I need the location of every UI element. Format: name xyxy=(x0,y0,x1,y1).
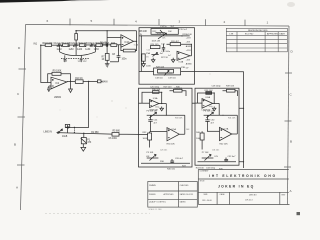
svg-text:1u63: 1u63 xyxy=(94,49,100,51)
inline resistor R4A xyxy=(111,44,117,47)
capacitor stubs below wire xyxy=(57,45,94,47)
svg-text:100K: 100K xyxy=(143,138,148,140)
dashed bus xyxy=(61,58,90,60)
inline cap C2A xyxy=(75,43,76,46)
box1 bottom inner frame xyxy=(154,68,181,75)
wire IC1a out xyxy=(134,31,137,42)
svg-text:R2A 10K: R2A 10K xyxy=(79,42,88,45)
pot P3A lower xyxy=(151,53,158,57)
wire IC2 out xyxy=(67,80,75,82)
svg-text:R9 100K: R9 100K xyxy=(53,71,62,73)
svg-text:P5 10K: P5 10K xyxy=(147,152,154,154)
wire line-in entry xyxy=(139,133,148,135)
pot P6 xyxy=(204,112,223,118)
svg-text:2: 2 xyxy=(224,20,226,24)
svg-text:C2A 1u: C2A 1u xyxy=(71,42,79,45)
svg-text:100K: 100K xyxy=(146,66,151,68)
svg-text:4n7: 4n7 xyxy=(168,55,171,57)
svg-text:IHT ELEKTRONIK OHG: IHT ELEKTRONIK OHG xyxy=(209,174,277,178)
shunt trimmer xyxy=(83,133,85,137)
input wire xyxy=(195,102,202,104)
labels below box2/box3 xyxy=(167,167,224,170)
extra faint component labels xyxy=(134,37,236,151)
border left xyxy=(21,25,26,211)
svg-text:IC1A: IC1A xyxy=(134,43,139,46)
resistor R24 xyxy=(150,46,160,49)
zone tick top 4/3 xyxy=(158,19,160,26)
op-amp IC4A xyxy=(150,100,160,108)
svg-text:R28 10K: R28 10K xyxy=(156,66,165,68)
svg-text:B: B xyxy=(14,143,16,147)
inline resistor R1A xyxy=(63,44,69,47)
inline resistor R3A xyxy=(96,44,102,47)
svg-text:B: B xyxy=(290,139,292,143)
inline cap C1A xyxy=(58,43,59,46)
svg-text:P3A: P3A xyxy=(146,52,151,55)
line-in wire xyxy=(57,133,140,135)
op-amp IC4B xyxy=(167,128,179,141)
svg-text:1u63: 1u63 xyxy=(69,49,75,51)
svg-text:JOKER IN EQ: JOKER IN EQ xyxy=(218,185,255,189)
resistor R10 xyxy=(75,80,83,84)
title block left box xyxy=(148,182,198,208)
ground under R7 xyxy=(105,60,110,67)
labels upper-left (tiny) xyxy=(34,31,148,144)
svg-text:LM33078: LM33078 xyxy=(149,110,159,112)
svg-text:C15 1n2: C15 1n2 xyxy=(179,29,188,31)
svg-text:47K: 47K xyxy=(87,142,92,144)
wire bottom frame to edge xyxy=(181,71,195,73)
svg-text:R1 680: R1 680 xyxy=(91,132,99,134)
zone tick top 5/4 xyxy=(113,19,115,26)
svg-text:100n: 100n xyxy=(122,59,128,61)
svg-text:R4A: R4A xyxy=(111,42,116,45)
svg-text:+15V: +15V xyxy=(186,38,192,40)
svg-text:C25 10n: C25 10n xyxy=(160,150,167,152)
op-amp IC7A xyxy=(220,127,232,140)
resistor R5 xyxy=(112,133,119,137)
svg-text:AGND: AGND xyxy=(186,45,193,48)
pot arrow inner frame xyxy=(156,30,166,34)
svg-text:P7 10K: P7 10K xyxy=(202,152,209,154)
svg-text:LIN: LIN xyxy=(146,156,150,158)
junctions box3 xyxy=(207,92,224,131)
wire ladder main xyxy=(40,45,41,46)
pot arrow bottom frame xyxy=(158,70,172,75)
svg-text:R30 10K: R30 10K xyxy=(152,89,161,91)
bottom wire box2 xyxy=(141,162,190,164)
svg-text:AGND: AGND xyxy=(186,63,193,66)
wire to IC4B xyxy=(151,131,168,133)
op-amp IC6A xyxy=(202,99,213,109)
op-amp IC1a xyxy=(121,35,134,48)
svg-text:R33 10K: R33 10K xyxy=(175,118,183,120)
svg-text:CB1 - 94.06: CB1 - 94.06 xyxy=(202,200,212,202)
resistor R40 vertical xyxy=(200,133,204,140)
bottom pot P5 xyxy=(147,154,159,160)
arrow mark xyxy=(66,127,68,129)
svg-text:SCALE 1:1 CAD: SCALE 1:1 CAD xyxy=(149,208,163,211)
svg-text:C32 4n7: C32 4n7 xyxy=(228,156,237,158)
svg-text:IC3A: IC3A xyxy=(179,61,184,64)
svg-text:LIN: LIN xyxy=(215,156,219,158)
output and fb vertical xyxy=(213,93,220,115)
pot P4 xyxy=(147,112,167,118)
svg-text:C19 10n: C19 10n xyxy=(168,78,177,80)
svg-text:DWG NO: DWG NO xyxy=(249,194,257,196)
svg-text:DATE: DATE xyxy=(280,33,286,36)
svg-text:C6 100n: C6 100n xyxy=(109,138,118,140)
svg-text:ISSUED: ISSUED xyxy=(149,194,156,196)
svg-text:APPROVED: APPROVED xyxy=(164,193,175,196)
pot P2A on wire xyxy=(158,33,167,39)
svg-text:4: 4 xyxy=(135,19,137,23)
svg-text:APPROVED: APPROVED xyxy=(267,33,279,36)
output and fb vertical xyxy=(159,92,166,115)
border top xyxy=(26,25,290,27)
cap C16 xyxy=(162,45,165,52)
svg-text:R24 1K5: R24 1K5 xyxy=(151,44,160,46)
svg-text:100p: 100p xyxy=(155,106,159,108)
op-amp IC2 xyxy=(51,77,67,89)
svg-text:100K LIN: 100K LIN xyxy=(152,41,161,43)
zone tick right C/B xyxy=(285,120,292,122)
svg-text:DATED 10.02.95: DATED 10.02.95 xyxy=(180,193,193,196)
resistor R30 on feedback xyxy=(153,91,160,94)
svg-text:C18 10n: C18 10n xyxy=(155,78,164,80)
ground box3 xyxy=(212,107,216,111)
svg-text:C28 100p: C28 100p xyxy=(212,86,222,88)
zone tick top 3/2 xyxy=(205,19,207,26)
svg-text:1u63: 1u63 xyxy=(77,49,83,51)
wire vertical x107 xyxy=(106,31,108,54)
resistor R7 xyxy=(105,54,109,61)
svg-text:6: 6 xyxy=(47,19,49,23)
ground box2 xyxy=(160,107,164,111)
svg-text:TITLE: TITLE xyxy=(200,180,206,182)
wire long vertical to line-in xyxy=(66,81,88,127)
input wire xyxy=(139,102,150,104)
svg-text:P2A: P2A xyxy=(157,32,162,35)
cap C26 xyxy=(170,159,174,163)
resistor R17 xyxy=(75,31,77,46)
ground under IC2 xyxy=(69,81,73,92)
svg-text:10uB: 10uB xyxy=(62,136,68,138)
capacitor C8 xyxy=(117,45,121,62)
zone tick left D/C xyxy=(19,68,27,70)
jack symbol xyxy=(58,125,68,134)
ground box1 left xyxy=(151,58,155,63)
svg-text:R44 100: R44 100 xyxy=(196,167,205,169)
labels between box1 and box2 xyxy=(150,86,181,88)
svg-text:R38 10K: R38 10K xyxy=(205,90,214,92)
feedback wire top xyxy=(142,92,162,103)
resistor R32 vertical xyxy=(148,133,152,140)
feedback wire top xyxy=(198,93,215,103)
long bus right of boxes xyxy=(195,72,244,169)
svg-text:LM33078: LM33078 xyxy=(202,109,212,111)
svg-text:C15: C15 xyxy=(147,50,150,52)
svg-text:ECO NO: ECO NO xyxy=(245,34,254,36)
svg-text:100p: 100p xyxy=(209,106,213,108)
svg-text:IC7A: IC7A xyxy=(224,128,229,131)
svg-text:R10 1K: R10 1K xyxy=(75,78,83,80)
svg-text:R18 100K: R18 100K xyxy=(43,43,54,45)
op-amp IC3A box1 xyxy=(177,51,190,60)
svg-text:1u63: 1u63 xyxy=(57,49,63,51)
svg-text:-15V: -15V xyxy=(186,60,191,62)
wire plus input xyxy=(107,37,121,39)
tie R7-C8 xyxy=(110,61,119,63)
svg-text:C3A 1u: C3A 1u xyxy=(88,42,96,45)
resistor R26 xyxy=(170,43,180,46)
junction dots ladder xyxy=(60,30,137,46)
svg-text:CAGE: CAGE xyxy=(220,193,226,196)
svg-text:IC1A: IC1A xyxy=(125,41,131,44)
zone tick right D/C xyxy=(285,72,292,74)
resistor R38 on feedback xyxy=(206,92,212,95)
svg-text:R42 10K: R42 10K xyxy=(220,143,229,145)
scan mark bottom-right corner xyxy=(297,212,301,215)
zone tick right B/A xyxy=(284,166,291,168)
title block right outline xyxy=(198,169,288,171)
connector out xyxy=(98,80,102,83)
ground hatch small 2 xyxy=(80,56,82,62)
ground under shunt xyxy=(81,144,86,151)
bottom pot P7 xyxy=(202,154,214,160)
junction box1 xyxy=(141,35,192,45)
cap C24 xyxy=(148,115,152,131)
svg-text:LINE IN: LINE IN xyxy=(44,131,53,134)
junction line-in xyxy=(74,127,85,134)
svg-text:C26 4n7: C26 4n7 xyxy=(175,158,184,160)
svg-text:DRAWN: DRAWN xyxy=(149,184,156,187)
svg-text:10K: 10K xyxy=(168,31,172,33)
svg-text:C14 1n: C14 1n xyxy=(160,26,168,28)
svg-text:IC6A: IC6A xyxy=(205,96,210,99)
faint fold line bottom xyxy=(45,212,150,214)
resistor R8 feedback xyxy=(123,49,135,52)
svg-text:R23A 10K: R23A 10K xyxy=(183,33,193,36)
link box2-box3 xyxy=(192,102,195,104)
zone tick top 2/1 xyxy=(244,20,246,26)
box1 inner pot frame xyxy=(151,29,178,35)
link wires between boxes xyxy=(192,102,195,104)
resistor right top box2 xyxy=(174,89,183,92)
svg-text:C31 10n: C31 10n xyxy=(212,149,219,151)
svg-text:+15V: +15V xyxy=(186,50,192,52)
inline resistor R2A xyxy=(79,44,85,47)
box1 main wire xyxy=(139,35,190,37)
svg-text:1K: 1K xyxy=(102,59,105,61)
center tap xyxy=(75,45,77,55)
svg-text:IC5A: IC5A xyxy=(171,128,176,131)
faint smudge top-right xyxy=(287,2,295,7)
scan edge artifact top-left xyxy=(0,0,80,3)
svg-text:100 1W: 100 1W xyxy=(100,45,109,47)
zone tick left C/B xyxy=(18,116,26,118)
revision table outline xyxy=(226,28,287,52)
box1 right vertical wire xyxy=(191,44,193,56)
zone tick top 6/5 xyxy=(69,19,71,26)
inline resistor R18 xyxy=(45,44,51,47)
scan specks xyxy=(112,101,113,102)
svg-text:-15V: -15V xyxy=(186,42,191,44)
svg-text:R39 10K: R39 10K xyxy=(226,86,235,88)
svg-text:QUALITY CONTROL: QUALITY CONTROL xyxy=(149,201,166,204)
junctions box2 xyxy=(150,92,167,132)
bottom wire box3 xyxy=(198,161,237,163)
box1 inner left vertical xyxy=(140,36,142,72)
trimmer P2B inside box1 xyxy=(142,54,145,61)
svg-text:R5 680: R5 680 xyxy=(113,131,121,133)
box3 outline xyxy=(195,88,239,165)
svg-text:COMPANY: COMPANY xyxy=(200,170,210,173)
svg-text:JOK 01.3: JOK 01.3 xyxy=(245,199,253,201)
wire feedback top xyxy=(76,30,136,32)
svg-text:R46 100: R46 100 xyxy=(167,169,176,171)
svg-text:1u63: 1u63 xyxy=(85,49,91,51)
svg-text:R26 4K7: R26 4K7 xyxy=(171,41,180,43)
wire to IC7A xyxy=(208,130,220,132)
svg-text:R41 10K: R41 10K xyxy=(228,118,236,120)
zone tick left B/A xyxy=(17,164,25,166)
box1 outline xyxy=(139,28,195,84)
svg-text:5: 5 xyxy=(91,19,93,23)
resistor right top box3 xyxy=(227,89,236,92)
ground box1 right xyxy=(171,58,175,63)
arc bus left xyxy=(60,45,77,55)
power rail labels right inside box1 xyxy=(186,38,193,70)
cap C30 xyxy=(205,115,209,131)
svg-text:C34 100p: C34 100p xyxy=(206,167,216,169)
svg-text:DATED: DATED xyxy=(180,201,187,204)
svg-text:R27 1K: R27 1K xyxy=(161,57,169,59)
svg-text:R34 10K: R34 10K xyxy=(167,144,176,146)
svg-text:CHECKED: CHECKED xyxy=(180,185,189,187)
svg-text:R8 10K: R8 10K xyxy=(140,31,148,33)
svg-text:REVISION RECORD: REVISION RECORD xyxy=(248,30,268,32)
cap C32 xyxy=(224,158,228,162)
svg-text:100K: 100K xyxy=(196,138,201,140)
wire left bottom xyxy=(139,71,154,73)
svg-text:LM833: LM833 xyxy=(54,97,62,99)
svg-text:LTR: LTR xyxy=(230,34,234,36)
arc bus right xyxy=(76,45,96,55)
ground hatch small 1 xyxy=(64,55,66,61)
wire left vertical to IC2 xyxy=(41,45,51,82)
svg-text:R31 10K: R31 10K xyxy=(174,88,183,90)
inline cap C3A xyxy=(91,43,92,46)
svg-text:3: 3 xyxy=(179,20,181,24)
box2 outline xyxy=(139,88,193,167)
svg-text:IC4A: IC4A xyxy=(153,97,158,100)
svg-text:1: 1 xyxy=(267,21,269,25)
inline cap C4A xyxy=(106,43,107,46)
svg-text:MAIN: MAIN xyxy=(102,80,108,83)
svg-text:R1A 10K: R1A 10K xyxy=(62,42,71,45)
svg-text:C1A 1u: C1A 1u xyxy=(54,42,62,45)
feedback R9 over IC2 xyxy=(48,74,71,83)
plus input stub IC2 xyxy=(47,86,51,91)
border right xyxy=(288,26,290,205)
